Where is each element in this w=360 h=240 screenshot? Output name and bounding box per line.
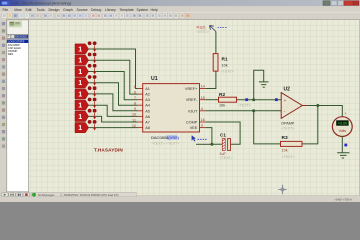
svg-text:1: 1 <box>78 114 82 121</box>
svg-text:No Messages: No Messages <box>38 193 55 197</box>
svg-text:Design: Design <box>49 8 60 12</box>
svg-text:1: 1 <box>78 58 82 65</box>
svg-text:1: 1 <box>78 91 82 98</box>
svg-text:Volts: Volts <box>339 129 347 133</box>
svg-text:Edit: Edit <box>26 8 32 12</box>
svg-text:1: 1 <box>78 80 82 87</box>
svg-text:A1: A1 <box>145 87 150 91</box>
svg-text:<TEXT>: <TEXT> <box>220 156 233 160</box>
svg-text:+: + <box>345 112 347 116</box>
svg-text:A3: A3 <box>145 98 150 102</box>
svg-text:<TEXT>: <TEXT> <box>281 126 294 130</box>
svg-text:COMP: COMP <box>186 121 198 125</box>
svg-text:Source: Source <box>77 8 88 12</box>
svg-text:P: P <box>8 35 10 39</box>
svg-text:OPAMP: OPAMP <box>281 121 295 125</box>
svg-text:<TEXT> <TEXT>: <TEXT> <TEXT> <box>152 142 180 146</box>
svg-text:R1(2): R1(2) <box>197 26 206 30</box>
svg-text:Graph: Graph <box>63 8 73 12</box>
svg-text:A7: A7 <box>145 121 150 125</box>
svg-text:9: 9 <box>134 107 136 111</box>
svg-text:Template: Template <box>120 8 134 12</box>
svg-text:Debug: Debug <box>91 8 101 12</box>
svg-text:A8: A8 <box>145 126 150 130</box>
svg-text:VREF-: VREF- <box>186 98 198 102</box>
svg-text:5: 5 <box>134 85 136 89</box>
svg-text:<TEXT>: <TEXT> <box>221 70 234 74</box>
svg-text:10k: 10k <box>222 63 228 67</box>
svg-text:12: 12 <box>132 124 136 128</box>
svg-text:3: 3 <box>201 124 203 128</box>
svg-text:UA - ISIS Professional (Animat: UA - ISIS Professional (Animating) <box>13 2 72 6</box>
svg-text:Library: Library <box>105 8 116 12</box>
svg-text:U1: U1 <box>151 76 158 82</box>
svg-text:C1: C1 <box>220 132 226 137</box>
svg-text:16: 16 <box>201 118 205 122</box>
svg-text:A2: A2 <box>145 93 150 97</box>
svg-text:1: 1 <box>78 69 82 76</box>
svg-text:U2: U2 <box>284 87 291 93</box>
svg-text:A5: A5 <box>145 109 150 113</box>
svg-text:6: 6 <box>134 90 136 94</box>
svg-text:VREF+: VREF+ <box>185 87 198 91</box>
svg-text:4: 4 <box>201 107 203 111</box>
svg-text:VEE: VEE <box>190 126 198 130</box>
svg-text:Tools: Tools <box>37 8 45 12</box>
svg-text:A6: A6 <box>145 115 150 119</box>
svg-text:10k: 10k <box>219 104 225 108</box>
svg-text:10: 10 <box>132 113 136 117</box>
svg-text:Help: Help <box>151 8 158 12</box>
svg-text:DEVICES: DEVICES <box>15 35 27 39</box>
svg-text:View: View <box>14 8 22 12</box>
svg-text:DAC0808(VSS): DAC0808(VSS) <box>151 135 180 140</box>
svg-text:11: 11 <box>132 118 136 122</box>
svg-text:A4: A4 <box>145 104 150 108</box>
svg-text:System: System <box>137 8 149 12</box>
svg-text:1: 1 <box>78 46 82 53</box>
svg-text:R2: R2 <box>219 92 225 98</box>
svg-text:15: 15 <box>201 96 205 100</box>
svg-text:RES: RES <box>8 52 14 56</box>
svg-text:14: 14 <box>201 85 205 89</box>
svg-text:7: 7 <box>134 96 136 100</box>
svg-text:1: 1 <box>78 103 82 110</box>
svg-text:8: 8 <box>134 102 136 106</box>
svg-text:File: File <box>3 8 9 12</box>
svg-text:LOGICSTATE: LOGICSTATE <box>8 39 25 43</box>
svg-text:T.HASAYDIN: T.HASAYDIN <box>94 148 123 153</box>
svg-text:R1: R1 <box>222 57 228 63</box>
svg-text:10k: 10k <box>282 149 288 153</box>
svg-text:<TEXT>: <TEXT> <box>197 30 210 34</box>
svg-text:<TEXT>: <TEXT> <box>282 155 295 159</box>
svg-text:<TEXT>: <TEXT> <box>238 104 251 108</box>
svg-text:R3: R3 <box>282 135 288 141</box>
svg-text:1: 1 <box>78 125 82 132</box>
svg-text:+1400 +700 th: +1400 +700 th <box>334 197 352 201</box>
svg-text:IOUT: IOUT <box>188 109 198 113</box>
svg-text:+0.00: +0.00 <box>338 122 347 126</box>
svg-text:+: + <box>284 98 287 103</box>
svg-text:ANIMATING: 00:00:04.350000 (C: ANIMATING: 00:00:04.350000 (CPU load 1%) <box>64 193 119 197</box>
